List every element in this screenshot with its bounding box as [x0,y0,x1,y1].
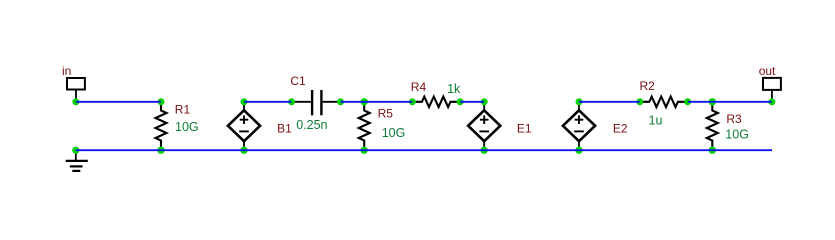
ground [66,150,88,171]
node dot R2 right [684,98,691,105]
svg-text:in: in [62,64,71,78]
svg-text:E1: E1 [517,122,532,136]
svg-text:E2: E2 [613,122,628,136]
node dot E1 top [481,98,488,105]
wire E2 top to R2 left [579,101,640,103]
e-source E2 [563,102,628,150]
node dot R1 top [158,98,165,105]
svg-text:R4: R4 [411,80,427,94]
capacitor C1 [290,74,340,132]
resistor R3 [707,102,749,150]
junction dot E1 bottom [481,147,488,154]
svg-text:B1: B1 [277,122,292,136]
node dot in [72,98,79,105]
svg-text:R5: R5 [378,107,394,121]
junction dot R3 bottom [709,147,716,154]
svg-text:10G: 10G [725,127,749,141]
junction dot R5 top [361,98,368,105]
svg-text:1u: 1u [649,113,663,127]
svg-text:R2: R2 [640,79,656,93]
junction dot R3 top [709,98,716,105]
wire bottom rail [76,149,772,151]
wire in to R1 top [76,101,161,103]
node dot out [768,98,775,105]
resistor R5 [359,102,406,150]
resistor R1 [156,102,199,150]
junction dot R5 bottom [361,147,368,154]
node dot R4 left [409,98,416,105]
svg-text:1k: 1k [447,82,461,96]
node dot E2 top [576,98,583,105]
node dot C1 left [288,98,295,105]
junction dot E2 bottom [575,147,582,154]
node dot C1 right [337,98,344,105]
wire R4 right to E1 top [460,101,484,103]
wire B1 top to C1 left [244,101,292,103]
wire C1 right to R4 left [341,101,413,103]
junction dot B1 bottom [240,147,247,154]
node dot ground [72,147,79,154]
svg-text:R1: R1 [175,103,191,117]
svg-text:R3: R3 [726,112,742,126]
resistor R4 [411,80,461,107]
svg-text:C1: C1 [290,74,306,88]
junction dot R1 bottom [157,147,164,154]
wire R2 right to out [688,101,772,103]
b-source B1 [228,102,292,150]
port out [759,64,781,102]
svg-text:10G: 10G [175,120,199,134]
e-source E1 [468,102,532,150]
node dot B1 top [241,98,248,105]
resistor R2 [640,79,688,127]
svg-text:10G: 10G [382,126,406,140]
port in [62,64,85,102]
node dot R2 left [636,98,643,105]
node dot R4 right [457,98,464,105]
svg-text:0.25n: 0.25n [296,118,327,132]
svg-text:out: out [759,64,776,78]
